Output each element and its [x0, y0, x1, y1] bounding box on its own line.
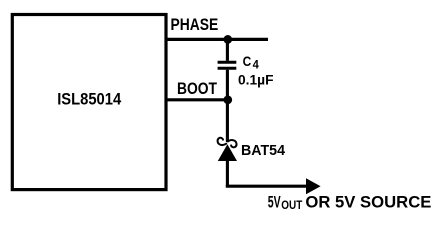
- svg-text:OR 5V SOURCE: OR 5V SOURCE: [305, 194, 431, 212]
- svg-text:4: 4: [253, 59, 260, 71]
- svg-text:OUT: OUT: [281, 198, 302, 212]
- svg-text:BOOT: BOOT: [177, 80, 217, 98]
- svg-text:C: C: [243, 54, 252, 70]
- svg-text:5V: 5V: [268, 194, 281, 212]
- svg-text:BAT54: BAT54: [241, 142, 286, 159]
- svg-text:ISL85014: ISL85014: [57, 90, 121, 109]
- svg-text:PHASE: PHASE: [171, 16, 219, 34]
- svg-text:0.1µF: 0.1µF: [238, 72, 274, 88]
